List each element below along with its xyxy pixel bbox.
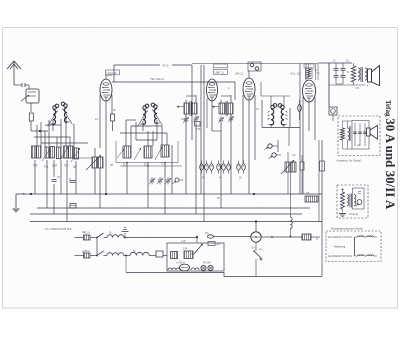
capacitor C20 — [300, 155, 304, 194]
wire osc row loops — [116, 141, 182, 167]
top bus output — [192, 63, 352, 194]
svg-text:bei 110/130 V: bei 110/130 V — [328, 235, 344, 239]
switch S3 voltage — [190, 236, 203, 254]
svg-text:Anpassg. für Klangf.: Anpassg. für Klangf. — [337, 159, 362, 163]
speaker LS2 — [367, 125, 378, 139]
svg-text:0,3: 0,3 — [144, 163, 149, 167]
capacitor C23 mains — [205, 232, 251, 238]
capacitor C5 cathode — [111, 114, 115, 131]
IF transformer T1 winding b — [190, 101, 197, 116]
bus y221 — [30, 220, 322, 222]
capacitor C8 electrolytic — [205, 161, 209, 174]
dashed box tone filter — [338, 116, 380, 156]
svg-text:134: 134 — [183, 248, 188, 251]
resistor R2 variable — [42, 146, 52, 161]
capacitor C25 — [195, 122, 201, 127]
svg-text:0,5: 0,5 — [292, 154, 296, 157]
svg-text:UM 11: UM 11 — [235, 72, 243, 76]
transformer T5 — [347, 194, 356, 208]
svg-text:Änderung: Änderung — [334, 245, 346, 249]
wires osc to buses — [127, 145, 172, 214]
wire mesh antenna stage — [31, 118, 88, 148]
loop jack — [353, 188, 365, 209]
svg-text:Netzspannung am Gerät: Netzspannung am Gerät — [331, 227, 363, 231]
svg-text:0,1: 0,1 — [44, 165, 49, 169]
trimmer CT3 — [165, 177, 171, 185]
wire output bottom — [329, 63, 365, 106]
bus y208 — [37, 207, 310, 209]
wire band line — [112, 77, 235, 100]
wire row A link — [61, 157, 95, 159]
lamp LP1 — [201, 265, 206, 270]
svg-text:49 084: 49 084 — [203, 262, 211, 265]
svg-text:0,2: 0,2 — [64, 164, 69, 168]
jack J2 pickup — [264, 140, 278, 152]
trimmer CT7 — [228, 115, 234, 123]
capacitor C15 — [334, 63, 339, 84]
wire interconnect — [96, 237, 98, 257]
svg-text:100: 100 — [181, 117, 186, 121]
value labels power — [82, 231, 136, 254]
trimmer CT1 — [149, 177, 155, 185]
barretter U409P — [168, 262, 199, 271]
coil L1 antenna — [48, 104, 59, 126]
label V4 — [290, 64, 314, 76]
wire mains top — [124, 237, 198, 239]
resistor R3b — [57, 147, 62, 159]
dashed box pickup — [337, 185, 368, 218]
capacitor C4 on bus — [70, 204, 76, 209]
capacitor C1 — [29, 113, 33, 131]
capacitor C9 electrolytic — [210, 161, 214, 174]
svg-text:0,1: 0,1 — [95, 118, 99, 121]
svg-text:379: 379 — [355, 87, 360, 90]
arrow R6 variable — [117, 148, 141, 160]
switch S2b — [97, 251, 107, 256]
capacitor C24 — [208, 242, 221, 247]
svg-text:Erdung: Erdung — [350, 212, 359, 216]
chassis CH1 — [122, 228, 129, 239]
capacitor C21 — [320, 161, 325, 171]
potentiometer P2 volume — [281, 152, 296, 217]
svg-text:0,1: 0,1 — [346, 60, 350, 63]
wires antenna stage to buses — [35, 160, 76, 222]
label pickup box — [350, 212, 359, 216]
label 1W — [181, 239, 186, 243]
IF transformer T1 winding a — [177, 103, 189, 114]
value labels caps — [202, 176, 242, 180]
coil L2 antenna — [61, 102, 72, 124]
label V2 — [214, 64, 228, 74]
wire dashed box1 — [343, 121, 361, 149]
wire V3 bottom — [243, 95, 255, 194]
wire motor — [251, 222, 302, 250]
choke L9 — [130, 252, 156, 255]
svg-text:Dr: Dr — [133, 250, 136, 253]
tube V3 UCL11 — [243, 78, 255, 100]
ground G1 — [13, 194, 20, 212]
capacitor C11 electrolytic — [222, 161, 226, 174]
coil L3 osc — [138, 104, 149, 126]
svg-text:Zf = 468/472/478 kHz: Zf = 468/472/478 kHz — [45, 227, 72, 231]
capacitor C16 — [341, 63, 346, 84]
value labels IF — [181, 117, 201, 131]
potentiometer P1 — [86, 148, 103, 208]
svg-text:50: 50 — [73, 165, 77, 169]
choke L7 — [107, 235, 124, 238]
fuse F2 — [75, 250, 98, 258]
capacitor C19 — [363, 123, 367, 146]
bus ground y194 — [16, 193, 322, 195]
jack J3 pickup — [268, 153, 281, 159]
svg-text:220: 220 — [216, 243, 221, 246]
svg-text:0,1: 0,1 — [82, 231, 86, 234]
coil L5 AF — [268, 104, 277, 127]
value labels mid — [228, 87, 296, 157]
box speaker net — [352, 121, 369, 150]
svg-text:Dr: Dr — [109, 232, 112, 235]
trimmer CT6 — [218, 116, 224, 124]
fuse F1 — [75, 232, 98, 241]
svg-text:50: 50 — [110, 163, 114, 167]
resistor R4 — [60, 146, 68, 160]
dial motor M1 — [251, 232, 261, 242]
resistor R5 variable — [71, 148, 80, 162]
capacitor C18 — [358, 123, 362, 146]
resistor R11 — [341, 121, 345, 149]
svg-text:0,5: 0,5 — [33, 164, 38, 168]
svg-text:0,1: 0,1 — [256, 108, 260, 111]
svg-text:1 W: 1 W — [181, 239, 186, 243]
switch S4 — [253, 242, 263, 276]
svg-text:0,1: 0,1 — [82, 251, 86, 254]
trimmer CT5 — [193, 115, 199, 123]
capacitor C12 electrolytic — [227, 161, 231, 174]
svg-text:20 V: 20 V — [251, 247, 256, 250]
output transformer T3 — [358, 67, 367, 82]
resistor R4b — [69, 146, 74, 158]
choke L8 — [107, 253, 130, 256]
coil L10 — [348, 121, 351, 149]
bus y214 — [30, 213, 302, 215]
trimmer CT4 — [183, 116, 189, 124]
label IF freq — [45, 227, 72, 231]
svg-text:UCH 11: UCH 11 — [107, 71, 117, 75]
resistor R12 — [341, 189, 345, 213]
title Tefag 30 A und 30/II A — [383, 100, 398, 210]
value label 50 bus — [217, 196, 220, 200]
resistor R10 — [347, 63, 356, 85]
resistor R3 — [50, 147, 55, 159]
tube V1 UCH11 — [100, 79, 112, 101]
capacitor C13 electrolytic — [237, 161, 241, 174]
tube V4 UCL11 output — [303, 80, 316, 102]
wires IF stage — [186, 65, 231, 222]
IF transformer T2 winding b — [226, 101, 233, 116]
top bus 47ohm — [114, 64, 192, 141]
rectifier GR box — [329, 63, 337, 121]
choke L11 — [289, 217, 292, 237]
svg-text:UBF 11: UBF 11 — [215, 70, 225, 74]
label 49084 — [203, 262, 211, 265]
wire mesh osc — [120, 120, 167, 146]
capacitor C2 — [52, 177, 61, 181]
svg-text:bei 220/240 V: bei 220/240 V — [328, 254, 344, 258]
tube V2 UBF11 — [207, 79, 218, 101]
capacitor C6 — [298, 100, 302, 120]
winding W1 — [171, 252, 178, 259]
legend box mains voltage — [326, 227, 381, 262]
label tone box — [337, 159, 362, 163]
svg-text:1W: 1W — [52, 164, 57, 168]
capacitor C22 — [156, 251, 167, 257]
value labels output — [333, 60, 360, 91]
coil L6 AF — [278, 104, 287, 127]
resistor R7 — [144, 146, 152, 158]
power transformer box — [167, 243, 224, 271]
resistor R6 — [123, 146, 131, 158]
capacitor C7 electrolytic — [200, 161, 204, 174]
label V1 — [106, 70, 120, 75]
wire AF coils — [261, 82, 300, 128]
wire antenna to coupler — [14, 83, 29, 89]
svg-text:79k. Band: 79k. Band — [150, 77, 164, 81]
resistor R9 — [306, 64, 320, 81]
resistor R13 — [305, 191, 318, 202]
resistor R8 — [161, 145, 169, 157]
label 50 — [110, 163, 114, 167]
wire V1 top — [106, 75, 112, 79]
jack J1 — [172, 178, 183, 184]
svg-text:U 409 P: U 409 P — [176, 262, 185, 265]
IF transformer T2 winding a — [213, 103, 225, 114]
wire right verticals — [289, 127, 322, 277]
capacitor C3 — [70, 178, 76, 183]
coil L4 osc — [151, 103, 162, 125]
wire bottom bus — [125, 255, 322, 277]
svg-text:0,1: 0,1 — [161, 162, 166, 166]
top cap V3 — [235, 62, 261, 78]
resistor R14 mains — [302, 234, 320, 240]
svg-text:UCL 11: UCL 11 — [290, 72, 300, 76]
svg-text:178: 178 — [196, 127, 201, 131]
svg-text:ZA: ZA — [306, 191, 310, 195]
svg-text:0,1: 0,1 — [123, 163, 128, 167]
speaker LS1 — [368, 66, 380, 87]
capacitor C17 — [353, 123, 357, 146]
value labels row A — [33, 164, 77, 170]
antenna A1 — [7, 61, 21, 85]
capacitor C10 electrolytic — [217, 161, 221, 174]
value labels row B — [123, 162, 166, 167]
jack J4 — [356, 200, 362, 207]
lamp LP2 — [208, 265, 213, 270]
resistor R1b — [37, 146, 42, 158]
wire V1 bottom — [100, 95, 112, 194]
winding W2 — [183, 248, 193, 259]
antenna coupler switch S1 — [21, 89, 39, 112]
ground G2 — [339, 214, 346, 217]
value label v1 grid — [95, 109, 116, 121]
svg-text:Wa: Wa — [205, 232, 209, 235]
capacitor C14 electrolytic — [242, 161, 246, 174]
wire V4 — [303, 64, 315, 195]
svg-text:47 Ω: 47 Ω — [162, 64, 169, 68]
switch S2a — [97, 233, 107, 238]
wire V2 — [207, 98, 221, 131]
trimmer CT2 — [157, 177, 163, 185]
arrow R8 variable — [155, 147, 162, 160]
resistor R1 — [32, 146, 37, 158]
svg-text:R: R — [347, 70, 349, 74]
